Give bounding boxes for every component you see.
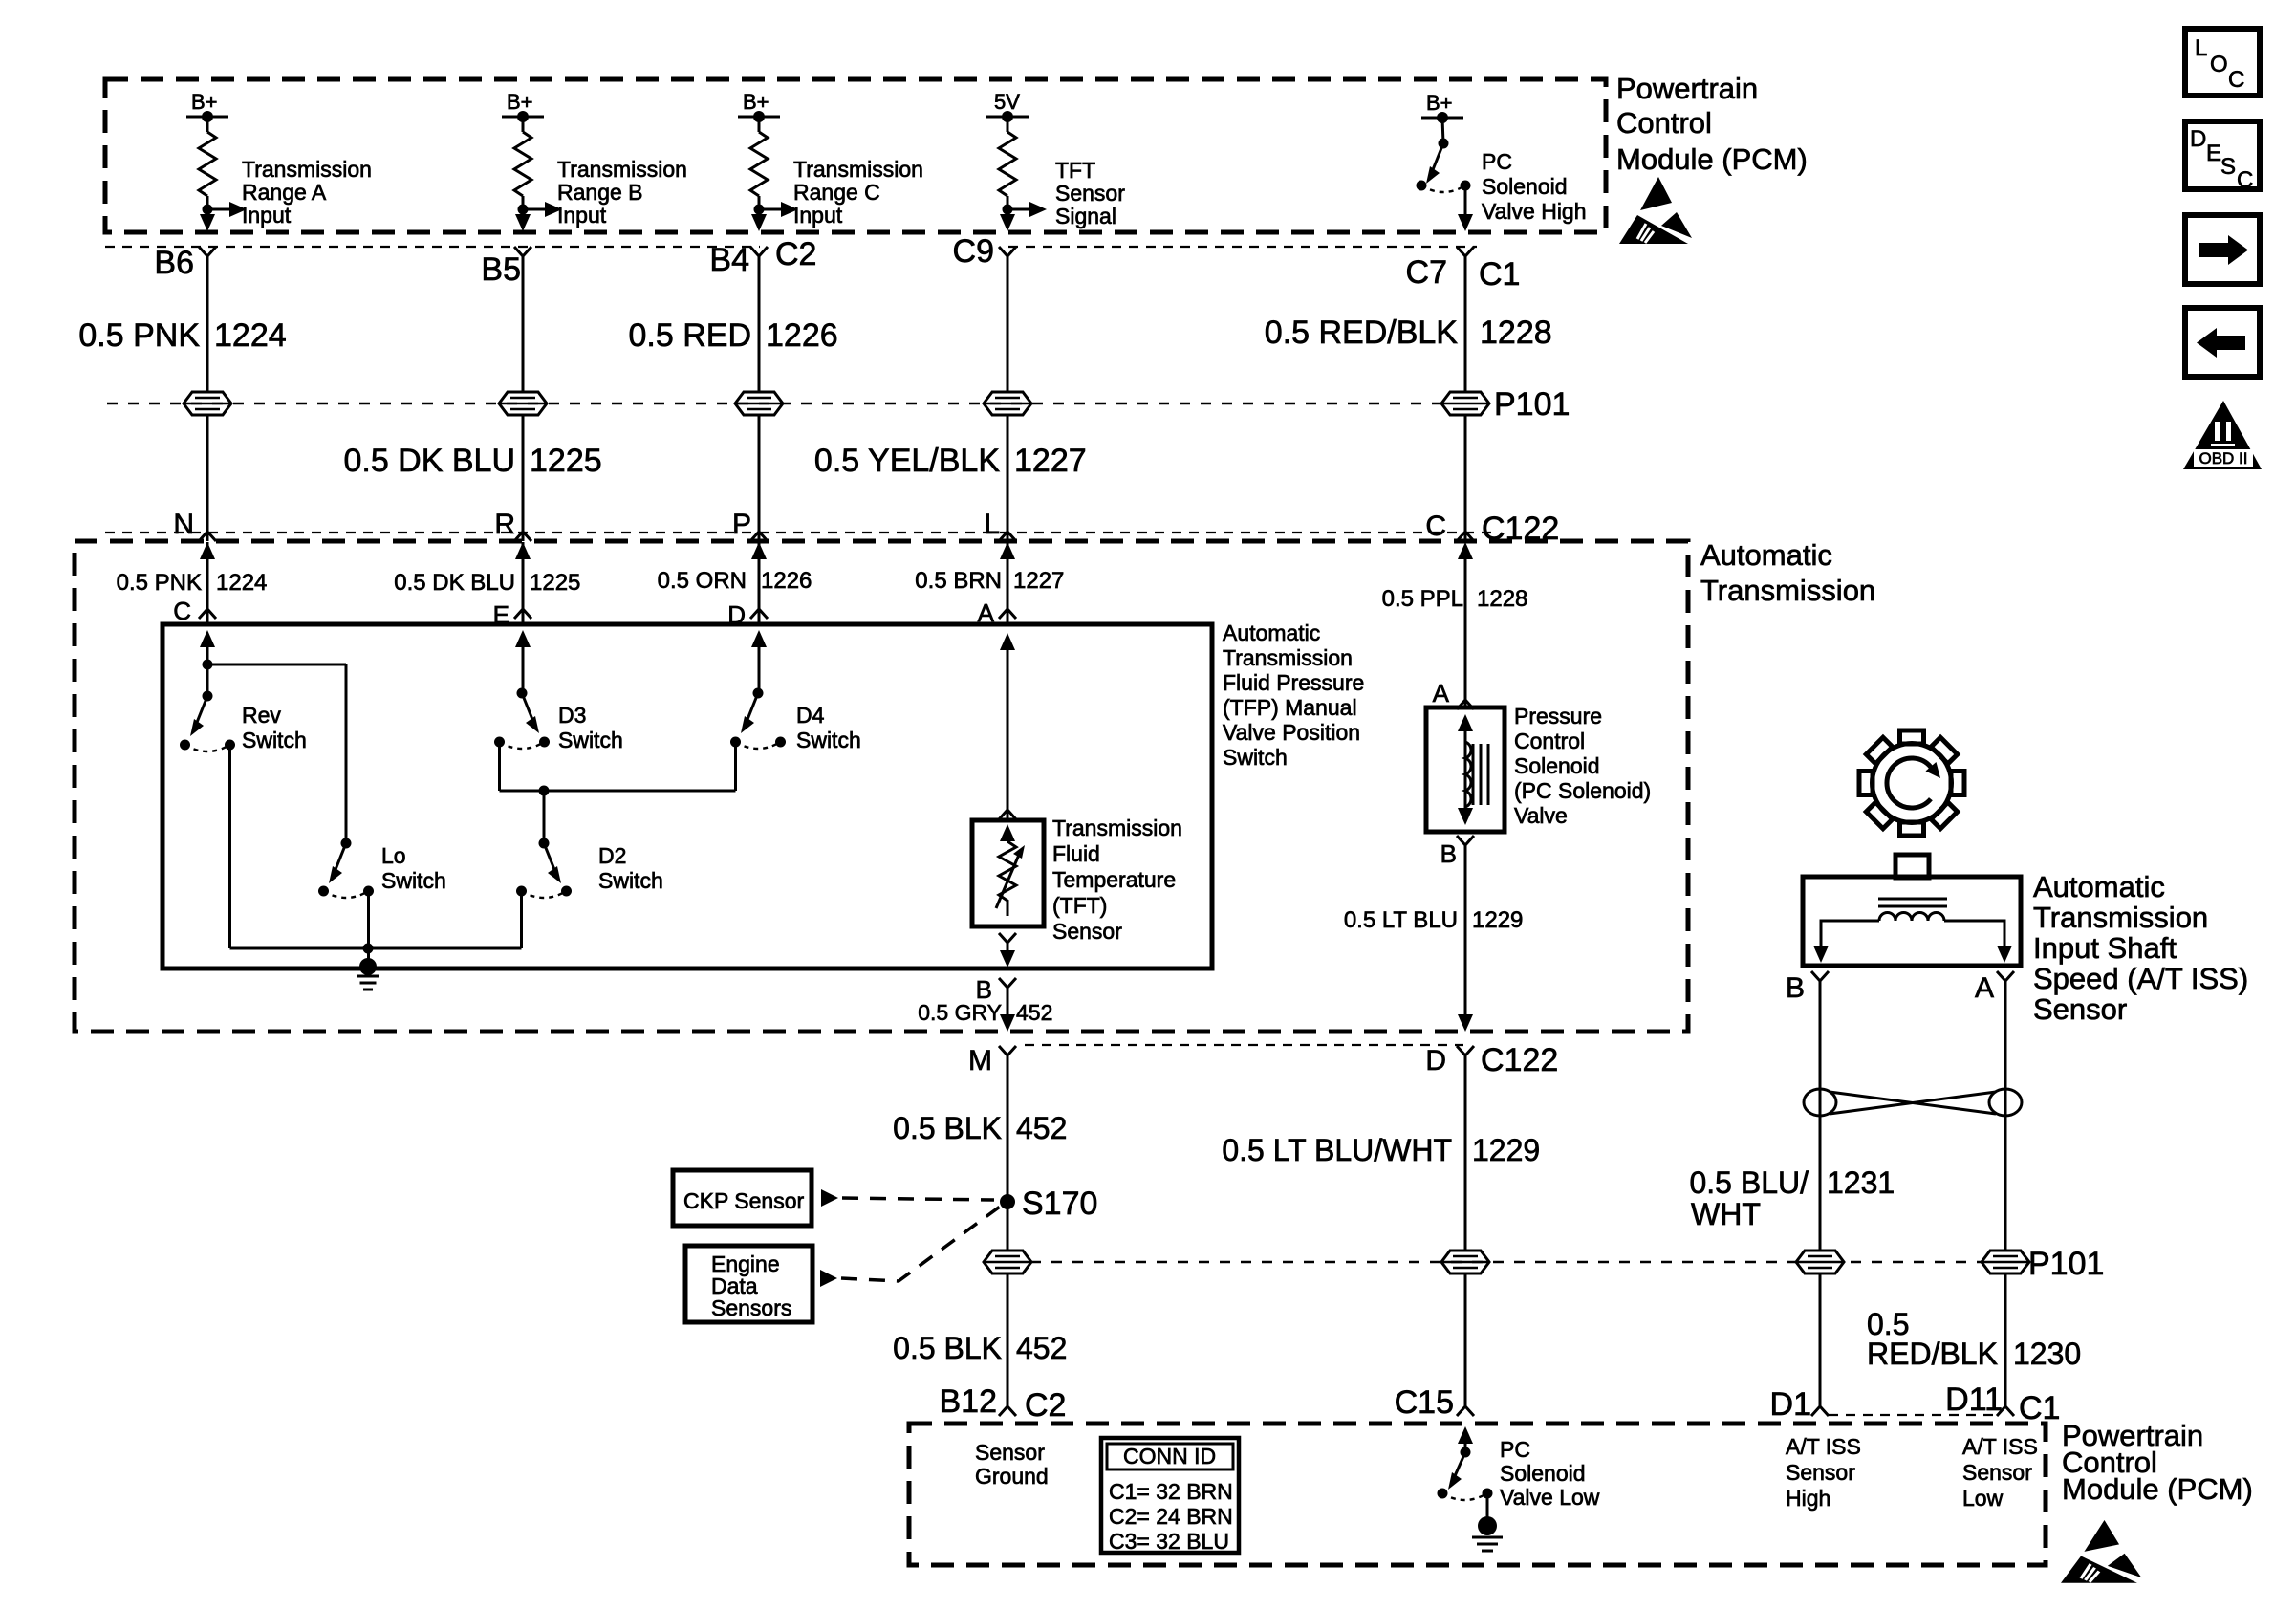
pin D1 xyxy=(1811,1400,1829,1416)
svg-text:Solenoid: Solenoid xyxy=(1500,1461,1586,1486)
switch PC Solenoid Valve High xyxy=(1442,118,1443,143)
node B+ (circuit 5) xyxy=(1421,117,1463,120)
A/T ISS sensor box xyxy=(1895,855,1929,878)
arrow from Engine Data Sensors xyxy=(820,1270,837,1287)
svg-text:Module (PCM): Module (PCM) xyxy=(1616,142,1808,176)
wire xyxy=(206,117,209,132)
svg-text:C1= 32 BRN: C1= 32 BRN xyxy=(1109,1479,1233,1504)
svg-text:R: R xyxy=(494,509,515,540)
svg-text:1229: 1229 xyxy=(1472,907,1523,933)
svg-text:0.5 YEL/BLK: 0.5 YEL/BLK xyxy=(814,443,1000,479)
wire from D3 switch down xyxy=(498,742,501,791)
resistor R (TFT Sensor Signal) xyxy=(999,132,1016,196)
wire ISS low xyxy=(2004,981,2007,1400)
svg-text:1231: 1231 xyxy=(1827,1165,1895,1200)
node B+ (circuit 1) xyxy=(186,116,228,119)
pin C C122 xyxy=(1457,525,1474,541)
svg-text:Speed (A/T ISS): Speed (A/T ISS) xyxy=(2033,962,2248,995)
wire 0.5 LT BLU 1229 xyxy=(1464,845,1467,1016)
PCM connector boundary dashed line (top) xyxy=(105,246,760,248)
Engine Data Sensors box xyxy=(685,1246,812,1322)
svg-text:0.5 PNK: 0.5 PNK xyxy=(78,317,200,354)
node B+ (circuit 3) xyxy=(738,116,780,119)
svg-text:Lo: Lo xyxy=(381,843,406,868)
svg-text:C: C xyxy=(1425,511,1446,542)
solenoid coil xyxy=(1465,742,1471,807)
svg-text:1225: 1225 xyxy=(530,570,580,596)
wire 0.5 YEL/BLK 1227 xyxy=(1007,256,1009,541)
svg-text:Automatic: Automatic xyxy=(1700,538,1832,572)
svg-text:(TFT): (TFT) xyxy=(1052,893,1107,918)
OBD II icon xyxy=(2183,401,2262,469)
wire 0.5 PNK 1224 xyxy=(206,256,209,541)
svg-text:D: D xyxy=(1425,1045,1446,1077)
arrow down to PCM edge xyxy=(200,214,215,231)
svg-text:D1: D1 xyxy=(1770,1386,1811,1423)
D3 switch xyxy=(515,630,531,647)
svg-text:Automatic: Automatic xyxy=(1223,620,1320,645)
pin E of TFP switch xyxy=(514,602,531,619)
pin R xyxy=(514,525,531,541)
wire ISS high xyxy=(1819,981,1822,1400)
pin N xyxy=(199,525,216,541)
resistor R (Transmission Range C Input) xyxy=(750,132,768,196)
ESD symbol top xyxy=(1619,177,1692,244)
svg-text:Switch: Switch xyxy=(796,728,861,752)
svg-text:P: P xyxy=(732,509,751,540)
pin C9 xyxy=(999,247,1016,263)
back arrow icon xyxy=(2185,308,2260,377)
svg-text:C: C xyxy=(2228,67,2244,93)
inline connector on circuit 3 xyxy=(735,392,783,415)
TFT sensor box xyxy=(972,820,1044,926)
svg-text:Range C: Range C xyxy=(793,180,880,205)
svg-text:0.5 DK BLU: 0.5 DK BLU xyxy=(343,443,515,479)
svg-text:C: C xyxy=(173,597,191,625)
svg-text:0.5 PNK: 0.5 PNK xyxy=(117,570,202,596)
svg-text:1226: 1226 xyxy=(766,317,838,354)
resistor R (Transmission Range B Input) xyxy=(514,132,531,196)
pin P xyxy=(750,525,768,541)
svg-text:L: L xyxy=(2195,35,2207,61)
svg-text:1224: 1224 xyxy=(216,570,267,596)
svg-text:0.5 ORN: 0.5 ORN xyxy=(658,568,747,594)
svg-text:D11: D11 xyxy=(1945,1382,2003,1418)
svg-text:PC: PC xyxy=(1500,1437,1530,1462)
svg-text:0.5 DK BLU: 0.5 DK BLU xyxy=(394,570,515,596)
svg-text:Input: Input xyxy=(557,203,607,228)
svg-text:B4: B4 xyxy=(709,242,749,278)
svg-text:Rev: Rev xyxy=(242,703,281,728)
wire xyxy=(206,196,209,217)
svg-text:CONN ID: CONN ID xyxy=(1123,1444,1216,1469)
svg-text:0.5 RED/BLK: 0.5 RED/BLK xyxy=(1265,315,1459,351)
wire 0.5 RED 1226 xyxy=(758,256,761,541)
wire 0.5 DK BLU 1225 (inside) xyxy=(522,542,525,624)
svg-text:0.5 RED: 0.5 RED xyxy=(629,317,752,354)
pin A of ISS xyxy=(1997,971,2014,988)
svg-text:1227: 1227 xyxy=(1013,568,1064,594)
pin below TFT sensor xyxy=(999,933,1016,949)
TFP interior: wire C branch xyxy=(200,630,215,647)
pin D11 C1 xyxy=(1997,1400,2014,1416)
svg-text:Range A: Range A xyxy=(242,180,327,205)
svg-text:A: A xyxy=(1433,679,1450,707)
wire from D2 switch to ground bus xyxy=(520,891,523,948)
wire 0.5 BRN 1227 (inside) xyxy=(1007,542,1009,624)
svg-text:452: 452 xyxy=(1016,1111,1067,1145)
svg-text:452: 452 xyxy=(1016,1000,1052,1025)
pin C of TFP switch xyxy=(199,602,216,619)
svg-text:Sensors: Sensors xyxy=(711,1295,791,1320)
TFP manual valve position switch box xyxy=(162,624,1212,968)
ground (TFP switch) xyxy=(359,958,377,975)
svg-text:S: S xyxy=(2220,154,2236,180)
D4 switch xyxy=(751,630,767,647)
svg-text:CKP Sensor: CKP Sensor xyxy=(683,1188,804,1213)
svg-text:N: N xyxy=(173,509,194,540)
svg-text:0.5 GRY: 0.5 GRY xyxy=(918,1000,1002,1025)
Automatic Transmission box xyxy=(75,541,1688,1032)
inline connector P101 ISS low xyxy=(1982,1251,2029,1273)
wire 0.5 DK BLU 1225 xyxy=(522,256,525,541)
svg-text:B+: B+ xyxy=(743,90,769,114)
svg-text:1226: 1226 xyxy=(761,568,812,594)
svg-text:0.5 BLK: 0.5 BLK xyxy=(893,1331,1002,1365)
svg-text:1225: 1225 xyxy=(530,443,602,479)
svg-text:C1: C1 xyxy=(2019,1390,2060,1426)
svg-text:Solenoid: Solenoid xyxy=(1514,753,1600,778)
pin B5 xyxy=(514,247,531,263)
inline connector P101 on ground wire xyxy=(984,1251,1031,1273)
svg-text:0.5 BLU/: 0.5 BLU/ xyxy=(1689,1165,1809,1200)
wire 0.5 PNK 1224 (inside) xyxy=(206,542,209,624)
svg-text:Powertrain: Powertrain xyxy=(1616,72,1758,105)
wire 0.5 GRY 452 xyxy=(1007,988,1009,1016)
svg-text:Temperature: Temperature xyxy=(1052,867,1176,892)
svg-text:B: B xyxy=(1786,972,1805,1004)
inline connector P101 on PC solenoid wire xyxy=(1441,1251,1489,1273)
svg-text:C2= 24 BRN: C2= 24 BRN xyxy=(1109,1504,1233,1529)
pin B (TFT to trans conn) xyxy=(999,978,1016,994)
forward arrow icon xyxy=(2185,215,2260,284)
svg-text:M: M xyxy=(968,1045,992,1077)
svg-text:Pressure: Pressure xyxy=(1514,704,1602,729)
svg-text:C122: C122 xyxy=(1481,1042,1558,1078)
pin C7 C1 xyxy=(1457,247,1474,263)
svg-text:D3: D3 xyxy=(558,703,586,728)
svg-text:A/T ISS: A/T ISS xyxy=(1962,1434,2038,1459)
node 5V xyxy=(986,116,1029,119)
inline connector P101 ISS high xyxy=(1796,1251,1844,1273)
pin A of TFP switch xyxy=(999,602,1016,619)
svg-text:C122: C122 xyxy=(1482,511,1559,547)
svg-text:B5: B5 xyxy=(481,251,521,288)
inline connector P101 xyxy=(1441,392,1489,415)
svg-text:B+: B+ xyxy=(191,90,218,114)
svg-text:P101: P101 xyxy=(2028,1246,2104,1282)
wire 0.5 RED/BLK 1228 xyxy=(1464,256,1467,541)
svg-text:1228: 1228 xyxy=(1477,586,1527,612)
svg-text:5V: 5V xyxy=(994,90,1020,114)
svg-text:Switch: Switch xyxy=(558,728,623,752)
pin B12 C2 xyxy=(999,1400,1016,1416)
wire 0.5 LT BLU/WHT 1229 xyxy=(1464,1055,1467,1400)
pin D C122 xyxy=(1457,1046,1474,1062)
pin M xyxy=(999,1046,1016,1062)
wire from D4 left contact down (to bus) xyxy=(734,742,737,791)
svg-text:C2: C2 xyxy=(775,236,816,272)
svg-text:1230: 1230 xyxy=(2013,1337,2081,1371)
svg-text:0.5 BRN: 0.5 BRN xyxy=(915,568,1002,594)
inline connector on circuit 1 xyxy=(184,392,231,415)
svg-text:Sensor: Sensor xyxy=(1052,919,1122,944)
svg-text:Control: Control xyxy=(1514,729,1585,753)
svg-text:B6: B6 xyxy=(154,245,194,281)
gear icon xyxy=(1837,708,1986,858)
C122 connector dashed line (upper) xyxy=(105,532,1491,533)
svg-text:Switch: Switch xyxy=(242,728,307,752)
svg-text:TFT: TFT xyxy=(1055,158,1095,183)
svg-text:O: O xyxy=(2210,52,2228,77)
arrow from CKP Sensor xyxy=(821,1189,838,1207)
svg-text:A: A xyxy=(1975,972,1994,1004)
pin B4 C2 xyxy=(750,247,768,263)
pin into TFT sensor xyxy=(999,803,1016,819)
Lo switch xyxy=(341,838,352,849)
svg-text:Switch: Switch xyxy=(1223,745,1288,770)
Rev switch xyxy=(203,691,213,702)
svg-text:B12: B12 xyxy=(940,1383,998,1420)
svg-text:Switch: Switch xyxy=(598,868,663,893)
core lines xyxy=(1878,898,1947,901)
svg-text:0.5 BLK: 0.5 BLK xyxy=(893,1111,1002,1145)
svg-text:C9: C9 xyxy=(953,233,994,270)
DESC icon xyxy=(2185,121,2260,193)
CONN ID table xyxy=(1101,1438,1239,1553)
svg-text:Transmission: Transmission xyxy=(1223,645,1353,670)
wire branch to Lo switch xyxy=(207,664,346,666)
svg-text:Switch: Switch xyxy=(381,868,446,893)
svg-text:B+: B+ xyxy=(1426,91,1453,115)
svg-text:L: L xyxy=(984,509,1000,540)
svg-text:PC: PC xyxy=(1482,149,1512,174)
svg-text:B: B xyxy=(1440,839,1457,868)
svg-text:D: D xyxy=(2190,126,2206,152)
pin B6 xyxy=(199,247,216,263)
pin A of PC solenoid xyxy=(1457,693,1474,709)
inline connector on circuit 4 xyxy=(984,392,1031,415)
svg-text:B+: B+ xyxy=(507,90,533,114)
svg-text:Input Shaft: Input Shaft xyxy=(2033,931,2177,965)
svg-text:D2: D2 xyxy=(598,843,626,868)
svg-text:Low: Low xyxy=(1962,1486,2004,1511)
svg-text:1228: 1228 xyxy=(1480,315,1552,351)
svg-text:P101: P101 xyxy=(1494,386,1570,423)
svg-text:Transmission: Transmission xyxy=(2033,901,2208,934)
svg-text:1224: 1224 xyxy=(214,317,287,354)
svg-text:0.5 LT BLU: 0.5 LT BLU xyxy=(1344,907,1458,933)
pin B of ISS xyxy=(1811,971,1829,988)
svg-text:Solenoid: Solenoid xyxy=(1482,174,1568,199)
svg-text:Sensor: Sensor xyxy=(975,1440,1045,1465)
svg-text:Valve High: Valve High xyxy=(1482,199,1587,224)
svg-text:Valve Low: Valve Low xyxy=(1500,1485,1600,1510)
svg-text:Ground: Ground xyxy=(975,1464,1049,1489)
D2 switch xyxy=(539,838,550,849)
PC solenoid valve box xyxy=(1426,707,1505,832)
switch PC Solenoid Valve Low xyxy=(1458,1426,1473,1444)
svg-text:Signal: Signal xyxy=(1055,204,1116,228)
svg-text:Transmission: Transmission xyxy=(793,157,923,182)
svg-text:A/T ISS: A/T ISS xyxy=(1786,1434,1861,1459)
svg-text:C15: C15 xyxy=(1395,1384,1454,1421)
pin D of TFP switch xyxy=(750,602,768,619)
PCM box (top) xyxy=(105,79,1606,232)
svg-text:Transmission: Transmission xyxy=(1052,816,1182,840)
svg-text:C: C xyxy=(2237,167,2253,193)
svg-text:RED/BLK: RED/BLK xyxy=(1867,1337,1998,1371)
svg-text:Transmission: Transmission xyxy=(557,157,687,182)
pin B of PC solenoid xyxy=(1457,836,1474,852)
svg-text:S170: S170 xyxy=(1022,1186,1097,1222)
PCM box (bottom) xyxy=(909,1424,2046,1565)
ESD symbol bottom xyxy=(2061,1520,2141,1583)
svg-text:(TFP) Manual: (TFP) Manual xyxy=(1223,695,1357,720)
svg-text:C2: C2 xyxy=(1025,1387,1066,1424)
svg-text:Fluid: Fluid xyxy=(1052,841,1100,866)
svg-text:452: 452 xyxy=(1016,1331,1067,1365)
svg-text:Sensor: Sensor xyxy=(1962,1460,2032,1485)
wire from Rev switch to ground bus xyxy=(228,745,231,948)
LOC icon xyxy=(2185,29,2260,96)
svg-text:C1: C1 xyxy=(1479,256,1520,293)
svg-text:Transmission: Transmission xyxy=(242,157,372,182)
svg-text:OBD II: OBD II xyxy=(2199,449,2247,468)
svg-text:Fluid Pressure: Fluid Pressure xyxy=(1223,670,1364,695)
svg-text:Valve: Valve xyxy=(1514,803,1568,828)
svg-text:Range B: Range B xyxy=(557,180,643,205)
svg-text:Control: Control xyxy=(1616,106,1712,140)
pickup coil xyxy=(1879,913,1944,922)
svg-text:WHT: WHT xyxy=(1691,1197,1761,1231)
resistor R (Transmission Range A Input) xyxy=(199,132,216,196)
signal arrow right xyxy=(207,208,231,211)
connector C1 dashed line (D1 to D11) xyxy=(1829,1414,1997,1416)
C122 connector dashed line (lower) xyxy=(1025,1044,1463,1046)
svg-text:High: High xyxy=(1786,1486,1830,1511)
svg-text:0.5 LT BLU/WHT: 0.5 LT BLU/WHT xyxy=(1222,1133,1452,1167)
svg-text:1229: 1229 xyxy=(1472,1133,1540,1167)
ground (PC solenoid valve low) xyxy=(1486,1493,1489,1518)
svg-text:Valve Position: Valve Position xyxy=(1223,720,1360,745)
svg-text:1227: 1227 xyxy=(1014,443,1087,479)
CKP Sensor box xyxy=(673,1170,812,1226)
dashed connector line P101 (top) xyxy=(107,402,1441,405)
svg-text:E: E xyxy=(2206,141,2221,166)
svg-text:Sensor: Sensor xyxy=(1055,181,1125,206)
twisted pair symbol xyxy=(1804,1089,2022,1116)
svg-text:C3= 32 BLU: C3= 32 BLU xyxy=(1109,1529,1229,1554)
svg-text:Transmission: Transmission xyxy=(1700,574,1875,607)
svg-text:Input: Input xyxy=(242,203,292,228)
splice S170 xyxy=(1000,1194,1015,1209)
svg-text:Input: Input xyxy=(793,203,843,228)
node B+ (circuit 2) xyxy=(502,116,544,119)
svg-text:C7: C7 xyxy=(1406,254,1447,291)
pin C15 xyxy=(1457,1400,1474,1416)
svg-text:Module (PCM): Module (PCM) xyxy=(2062,1472,2253,1506)
svg-text:Sensor: Sensor xyxy=(1786,1460,1855,1485)
svg-text:Automatic: Automatic xyxy=(2033,870,2165,903)
svg-text:D4: D4 xyxy=(796,703,825,728)
wire from Lo switch to ground xyxy=(367,891,370,967)
dashed connector line P101 (bottom) xyxy=(1030,1261,1982,1264)
svg-text:0.5 PPL: 0.5 PPL xyxy=(1382,586,1463,612)
inline connector on circuit 2 xyxy=(499,392,547,415)
svg-text:(PC Solenoid): (PC Solenoid) xyxy=(1514,778,1651,803)
pin L xyxy=(999,525,1016,541)
svg-text:Sensor: Sensor xyxy=(2033,992,2127,1026)
wire 0.5 ORN 1226 (inside) xyxy=(758,542,761,624)
